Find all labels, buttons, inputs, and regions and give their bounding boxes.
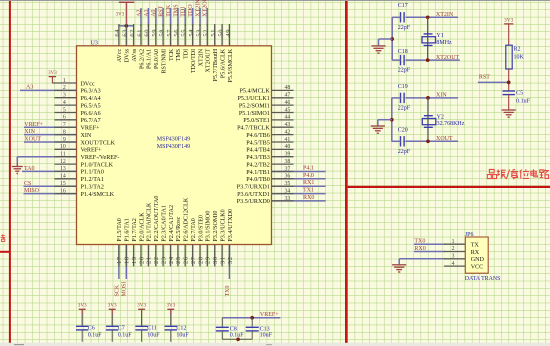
wire net RST (pin 58): [162, 8, 164, 26]
svg-text:A1: A1: [144, 9, 150, 16]
U3 pin 40 P4.4/TB4 stub: [272, 148, 294, 150]
power port 3V3 above C12: [166, 303, 175, 310]
svg-text:P4.0: P4.0: [303, 173, 314, 179]
svg-text:32: 32: [227, 256, 234, 264]
U3 pin 7 VREF+ stub: [55, 126, 77, 128]
svg-text:AVcc: AVcc: [117, 49, 123, 63]
U3 pin 4 P6.5/A5 stub: [55, 104, 77, 106]
svg-text:P6.0/A0: P6.0/A0: [154, 49, 160, 69]
U3 pin 35 P3.7/URXD1 stub: [272, 185, 294, 187]
svg-text:XT2OUT: XT2OUT: [436, 55, 460, 61]
svg-text:22pF: 22pF: [398, 149, 411, 155]
svg-text:P3.4/UTXD0: P3.4/UTXD0: [228, 209, 234, 242]
svg-text:P3.7/URXD1: P3.7/URXD1: [237, 185, 270, 191]
svg-text:P3.3/UCLK0: P3.3/UCLK0: [220, 209, 226, 241]
wire pin11 to ground: [17, 156, 76, 158]
svg-text:XT2IN: XT2IN: [195, 0, 201, 17]
svg-text:XIN: XIN: [436, 92, 447, 98]
wire net A0 (pin 59): [155, 8, 157, 26]
JP6 pin 1 stub: [444, 243, 465, 245]
svg-text:25: 25: [175, 256, 182, 264]
svg-text:TA0: TA0: [24, 166, 35, 172]
svg-text:48: 48: [285, 85, 291, 91]
svg-text:42: 42: [285, 129, 291, 135]
U3 pin 62 AVss stub: [133, 24, 135, 46]
U3 pin 47 P5.3/UCLK1 stub: [272, 97, 294, 99]
svg-text:3V3: 3V3: [116, 12, 125, 17]
svg-text:1: 1: [452, 239, 455, 245]
svg-text:MSP430F149: MSP430F149: [157, 136, 190, 142]
svg-text:P6.2/A2: P6.2/A2: [139, 49, 145, 69]
svg-text:60: 60: [144, 29, 151, 37]
svg-text:Y2: Y2: [437, 115, 444, 121]
U3 pin 13 P1.1/TA0 stub: [55, 170, 77, 172]
U3 pin 60 P6.1/A1 stub: [147, 24, 149, 46]
svg-text:44: 44: [285, 115, 291, 121]
svg-text:P6.7/A7: P6.7/A7: [81, 118, 101, 124]
svg-text:P4.0/TB0: P4.0/TB0: [246, 177, 270, 183]
svg-text:4: 4: [63, 100, 66, 106]
svg-text:30: 30: [212, 256, 219, 264]
svg-text:DVcc: DVcc: [81, 81, 96, 87]
svg-text:P5.1/SIMO1: P5.1/SIMO1: [239, 111, 270, 117]
svg-text:P5.0/STE1: P5.0/STE1: [243, 118, 270, 124]
U3 pin 49 P5.5/SMCLK stub: [228, 24, 230, 46]
svg-text:P2.2/CAOUT/TA0: P2.2/CAOUT/TA0: [154, 196, 160, 242]
svg-text:2: 2: [63, 85, 66, 91]
svg-text:DATA TRANS: DATA TRANS: [465, 276, 501, 282]
svg-text:C11: C11: [147, 325, 157, 331]
power port 3V3 above R2: [504, 17, 514, 24]
junction left rail XIN group: [390, 118, 394, 122]
capacitor C8: [216, 318, 245, 340]
svg-text:61: 61: [136, 29, 143, 37]
svg-text:A0: A0: [151, 9, 157, 16]
svg-text:P1.2/TA1: P1.2/TA1: [81, 177, 104, 183]
svg-text:16: 16: [60, 188, 66, 194]
U3 pin 58 RST/NMI stub: [162, 24, 164, 46]
svg-text:12: 12: [60, 159, 66, 165]
svg-text:P4.1: P4.1: [303, 166, 314, 172]
U3 pin 12 P1.0/TACLK stub: [55, 163, 77, 165]
svg-text:P2.1/TAINCLK: P2.1/TAINCLK: [147, 202, 153, 242]
wire C11 lower lead: [141, 330, 143, 342]
U3 pin 22 P2.2/CAOUT/TA0 stub: [155, 245, 157, 267]
svg-text:AVss: AVss: [132, 48, 138, 61]
wire net A1 (pin 60): [147, 8, 149, 26]
svg-text:P5.2/SOMI1: P5.2/SOMI1: [239, 103, 270, 109]
JP6 pin 4 stub: [444, 265, 465, 267]
U3 pin 50 P5.6/ACLK stub: [221, 24, 223, 46]
svg-text:51: 51: [210, 29, 217, 37]
svg-text:9: 9: [63, 137, 66, 143]
svg-text:64: 64: [114, 29, 121, 37]
wire XOUT right: [406, 140, 459, 142]
svg-text:TCK: TCK: [169, 48, 175, 61]
svg-text:3: 3: [63, 93, 66, 99]
svg-text:10uF: 10uF: [147, 333, 160, 339]
U3 pin 23 P2.3/CA0/TA1 stub: [162, 245, 164, 267]
svg-text:22: 22: [153, 256, 160, 264]
junction XT2IN: [426, 15, 430, 19]
svg-text:4: 4: [452, 261, 455, 267]
U3 pin 28 P3.0/STE0 stub: [199, 245, 201, 267]
U3 pin 33 P3.5/URXD0 stub: [272, 200, 294, 202]
U3 pin 37 P4.1/TB1 stub: [272, 171, 294, 173]
svg-text:5: 5: [63, 107, 66, 113]
U3 pin 46 P5.2/SOMI1 stub: [272, 104, 294, 106]
svg-text:P3.6/UTXD1: P3.6/UTXD1: [237, 192, 270, 198]
U3 pin 19 P1.7/TA2 stub: [133, 245, 135, 267]
svg-text:P3.5/URXD0: P3.5/URXD0: [237, 199, 270, 205]
U3 pin 8 XIN stub: [55, 134, 77, 136]
svg-text:C19: C19: [398, 84, 408, 90]
wire 3V3 to C12: [170, 309, 172, 314]
U3 pin 34 P3.6/UTXD1 stub: [272, 193, 294, 195]
U3 pin 5 P6.6/A6 stub: [55, 112, 77, 114]
wire net TDI (pin 55): [184, 8, 186, 26]
svg-text:RST: RST: [159, 5, 165, 16]
svg-text:P6.5/A5: P6.5/A5: [81, 103, 101, 109]
svg-text:52: 52: [203, 29, 210, 37]
svg-text:3: 3: [452, 254, 455, 260]
svg-text:A3: A3: [26, 85, 33, 91]
capacitor C17: [398, 3, 411, 31]
svg-text:3V3: 3V3: [137, 303, 146, 309]
junction bottom rail: [236, 337, 240, 341]
wire 3V3 rail to pins 64,63,62: [119, 25, 134, 27]
wire net XIN (pin8): [24, 134, 77, 136]
svg-text:8MHz: 8MHz: [436, 40, 452, 46]
U3 pin 6 P6.7/A7 stub: [55, 119, 77, 121]
svg-text:XOUT/TCLK: XOUT/TCLK: [81, 140, 116, 146]
U3 pin 11 VREF-/VeREF- stub: [55, 156, 77, 158]
capacitor C19: [398, 84, 411, 111]
svg-text:10K: 10K: [514, 55, 525, 61]
svg-text:R2: R2: [514, 47, 521, 53]
power port 3V3 feeding pins 64-62: [116, 2, 135, 26]
svg-text:3V3: 3V3: [78, 303, 87, 309]
svg-text:35: 35: [285, 181, 291, 187]
wire JP6 pin3 to ground: [398, 259, 400, 265]
svg-text:38: 38: [285, 159, 291, 165]
U3 pin 29 P3.1/SIMO0 stub: [206, 245, 208, 267]
wire to ground XIN group: [378, 119, 392, 121]
svg-text:VREF+: VREF+: [81, 126, 101, 132]
svg-text:34: 34: [285, 188, 291, 194]
U3 pin 55 TDI stub: [184, 24, 186, 46]
U3 pin 15 P1.3/TA2 stub: [55, 185, 77, 187]
svg-text:39: 39: [285, 152, 291, 158]
U3 pin 25 P2.5/Rosc stub: [177, 245, 179, 267]
wire XT2IN left: [392, 16, 400, 18]
U3 pin 31 P3.3/UCLK0 stub: [221, 245, 223, 267]
svg-text:GND: GND: [471, 257, 485, 263]
ground symbol at pin11: [12, 167, 23, 174]
capacitor C12: [165, 325, 190, 338]
svg-text:P4.7/TBCLK: P4.7/TBCLK: [237, 126, 270, 132]
wire net XT2IN (pin 53): [199, 8, 201, 26]
svg-text:P5.4/MCLK: P5.4/MCLK: [239, 89, 270, 95]
svg-text:U3: U3: [91, 41, 98, 47]
svg-text:0.1uF: 0.1uF: [230, 332, 245, 338]
wire left rail XIN group: [391, 98, 393, 141]
wire net MISO (pin16): [24, 193, 77, 195]
svg-text:46: 46: [285, 100, 291, 106]
U3 pin 10 VeREF+ stub: [55, 148, 77, 150]
U3 pin 24 P2.4/CA1/TA2 stub: [170, 245, 172, 267]
JP6 pin 2 stub: [444, 251, 465, 253]
U3 pin 20 P2.0/ACLK stub: [140, 245, 142, 267]
svg-text:P1.5/TA0: P1.5/TA0: [117, 218, 123, 241]
svg-text:63: 63: [122, 29, 129, 37]
svg-text:P5.5/SMCLK: P5.5/SMCLK: [228, 48, 234, 82]
wire net P4.0 (pin 36): [272, 178, 326, 180]
U3 pin 64 AVcc stub: [118, 24, 120, 46]
wire net CS (pin15): [24, 185, 77, 187]
svg-text:RX0: RX0: [414, 246, 425, 252]
U3 pin 53 XT2IN stub: [199, 24, 201, 46]
power port 3V3 above C6: [78, 303, 87, 310]
junction VREF+ rail: [250, 316, 254, 320]
svg-text:13: 13: [60, 166, 66, 172]
svg-text:P4.2/TB2: P4.2/TB2: [246, 162, 270, 168]
svg-text:P4.3/TB3: P4.3/TB3: [246, 155, 270, 161]
svg-text:15: 15: [60, 181, 66, 187]
U3 pin 54 TDO/TDI stub: [192, 24, 194, 46]
svg-text:P2.6/ADC12CLK: P2.6/ADC12CLK: [184, 197, 190, 241]
svg-text:54: 54: [188, 29, 195, 37]
wire 3V3 to C11: [141, 309, 143, 314]
svg-text:43: 43: [285, 122, 291, 128]
U3 pin 61 P6.2/A2 stub: [140, 24, 142, 46]
wire net TMS (pin 56): [177, 8, 179, 26]
wire net RX1 (pin 35): [272, 185, 326, 187]
svg-text:P1.7/TA2: P1.7/TA2: [132, 218, 138, 241]
wire net XOUT (pin9): [24, 141, 77, 143]
svg-text:3V3: 3V3: [48, 71, 57, 76]
ground symbol C5: [502, 110, 516, 117]
U3 pin 59 P6.0/A0 stub: [155, 24, 157, 46]
svg-text:56: 56: [173, 29, 180, 37]
svg-text:8: 8: [63, 129, 66, 135]
svg-text:XT2IN: XT2IN: [436, 12, 454, 18]
svg-text:0.1uF: 0.1uF: [118, 333, 133, 339]
svg-text:MISO: MISO: [24, 188, 40, 194]
junction 3V3 rail: [124, 24, 128, 28]
wire C12 lower lead: [170, 330, 172, 342]
U3 pin 42 P4.6/TB6 stub: [272, 134, 294, 136]
svg-text:3V3: 3V3: [166, 303, 175, 309]
svg-text:C20: C20: [398, 128, 408, 134]
svg-text:P1.0/TACLK: P1.0/TACLK: [81, 162, 114, 168]
junction left rail XT2: [390, 37, 394, 41]
wire 3V3 to R2: [508, 24, 510, 45]
U3 pin 38 P4.2/TB2 stub: [272, 163, 294, 165]
wire net RST: [478, 81, 509, 83]
svg-text:27: 27: [190, 256, 197, 264]
sheet divider: left margin red line: [9, 1, 11, 343]
svg-text:10uF: 10uF: [260, 332, 273, 338]
svg-text:Y1: Y1: [436, 33, 443, 39]
svg-text:1: 1: [63, 78, 66, 84]
svg-text:18: 18: [124, 256, 131, 264]
svg-text:TDI: TDI: [181, 7, 187, 17]
svg-text:40: 40: [285, 144, 291, 150]
section label crystal/reset (CJK): [487, 169, 549, 179]
svg-text:22pF: 22pF: [398, 68, 411, 74]
svg-text:XOUT: XOUT: [24, 137, 41, 143]
svg-text:SCK: SCK: [114, 284, 120, 296]
wire C5 to ground: [508, 95, 510, 110]
ground symbol XIN group: [371, 126, 385, 133]
svg-text:21: 21: [146, 256, 153, 264]
svg-text:VREF-/VeREF-: VREF-/VeREF-: [81, 155, 120, 161]
svg-text:57: 57: [166, 29, 173, 37]
U3 pin 16 P1.4/SMCLK stub: [55, 193, 77, 195]
U3 pin 39 P4.3/TB3 stub: [272, 156, 294, 158]
svg-text:55: 55: [181, 29, 188, 37]
wire to ground XT2: [379, 38, 393, 40]
wire left rail XT2: [391, 17, 393, 60]
svg-text:23: 23: [160, 256, 167, 264]
ground symbol JP6: [392, 265, 406, 272]
sheet divider: horizontal red line y=187: [348, 186, 550, 188]
JP6 pin 1 net wire: [414, 243, 445, 245]
wire net SCK (pin 17): [118, 245, 120, 280]
svg-text:P4.4/TB4: P4.4/TB4: [246, 148, 270, 154]
svg-text:14: 14: [60, 174, 66, 180]
svg-text:P2.4/CA1/TA2: P2.4/CA1/TA2: [169, 205, 175, 242]
svg-text:RST: RST: [479, 75, 490, 81]
svg-text:P6.3/A3: P6.3/A3: [81, 89, 101, 95]
wire net XT2OUT (pin 52): [206, 8, 208, 26]
svg-text:P5.7/TBoutH: P5.7/TBoutH: [213, 48, 219, 81]
svg-text:P4.1/TB1: P4.1/TB1: [246, 170, 270, 176]
svg-text:P2.5/Rosc: P2.5/Rosc: [176, 216, 182, 241]
wire C8-C13 bottom rail: [222, 338, 252, 340]
sheet divider: left margin tick: [0, 251, 10, 253]
ground symbol XT2: [371, 46, 385, 53]
svg-text:62: 62: [129, 29, 136, 37]
svg-text:C5: C5: [516, 90, 523, 96]
svg-text:P2.3/CA0/TA1: P2.3/CA0/TA1: [161, 205, 167, 242]
svg-text:C12: C12: [176, 325, 186, 331]
wire XOUT left: [392, 140, 401, 142]
svg-text:XT2OUT: XT2OUT: [206, 49, 212, 73]
svg-text:TDO/TDI: TDO/TDI: [191, 49, 197, 73]
svg-text:P4.6/TB6: P4.6/TB6: [246, 133, 270, 139]
capacitor C20: [398, 128, 411, 155]
svg-text:TX0: TX0: [225, 286, 231, 297]
wire net VREF+ (pin7): [24, 126, 77, 128]
wire net RX0 (pin 33): [272, 200, 326, 202]
svg-text:20: 20: [138, 256, 145, 264]
wire net A2 (pin 61): [140, 8, 142, 26]
svg-text:P1.6/TA1: P1.6/TA1: [125, 218, 131, 241]
svg-text:C7: C7: [118, 325, 125, 331]
junction RST: [507, 81, 511, 85]
svg-text:26: 26: [183, 256, 190, 264]
bottom status strip: [0, 343, 550, 346]
U3 pin 41 P4.5/TB5 stub: [272, 141, 294, 143]
U3 pin 17 P1.5/TA0 stub: [118, 245, 120, 267]
svg-text:7: 7: [63, 122, 66, 128]
svg-text:P5.6/ACLK: P5.6/ACLK: [220, 48, 226, 78]
svg-text:P3.2/SOMI0: P3.2/SOMI0: [213, 211, 219, 242]
svg-text:19: 19: [131, 256, 138, 264]
U3 pin 21 P2.1/TAINCLK stub: [147, 245, 149, 267]
svg-text:22pF: 22pF: [398, 25, 411, 31]
svg-text:45: 45: [285, 107, 291, 113]
power port 3V3 above C7: [108, 303, 117, 310]
capacitor C6: [76, 325, 102, 338]
wire C6 lower lead: [81, 330, 83, 342]
svg-text:TX0: TX0: [414, 239, 425, 245]
U3 pin 43 P4.7/TBCLK stub: [272, 126, 294, 128]
svg-text:C17: C17: [398, 3, 408, 9]
sheet divider: vertical red line x=345: [345, 1, 348, 343]
capacitor C11: [135, 325, 160, 338]
wire R2 to RST node: [508, 69, 510, 91]
svg-text:XT2OUT: XT2OUT: [203, 0, 209, 17]
junction XT2OUT: [426, 58, 430, 62]
wire VREF+ rail: [222, 317, 280, 319]
U3 pin 52 XT2OUT stub: [206, 24, 208, 46]
wire C7 lower lead: [111, 330, 113, 342]
U3 pin 1 DVcc stub: [52, 82, 76, 84]
svg-text:11: 11: [60, 152, 66, 158]
JP6 pin 2 net wire: [414, 251, 445, 253]
svg-text:37: 37: [285, 166, 291, 172]
crystal Y1: [422, 17, 452, 60]
svg-text:XOUT: XOUT: [436, 136, 453, 142]
svg-text:CS: CS: [24, 181, 31, 187]
svg-text:P2.7/TA0: P2.7/TA0: [191, 218, 197, 241]
power port 3V3 at U3 pin1: [48, 71, 57, 77]
svg-text:TDI: TDI: [184, 49, 190, 59]
capacitor C5: [503, 90, 531, 104]
U3 pin 3 P6.4/A4 stub: [55, 97, 77, 99]
margin zone character: [1, 234, 5, 241]
svg-text:JP6: JP6: [465, 232, 474, 238]
svg-text:33: 33: [285, 196, 291, 202]
svg-text:29: 29: [205, 256, 212, 264]
wire net P4.1 (pin 37): [272, 171, 326, 173]
svg-text:DVss: DVss: [125, 48, 131, 62]
svg-text:P6.6/A6: P6.6/A6: [81, 111, 101, 117]
wire net TDO (pin 54): [192, 8, 194, 26]
svg-text:3V3: 3V3: [108, 303, 117, 309]
U3 pin 63 DVss stub: [125, 24, 127, 46]
svg-text:P2.0/ACLK: P2.0/ACLK: [139, 212, 145, 242]
svg-text:59: 59: [151, 29, 158, 37]
svg-text:VREF+: VREF+: [24, 122, 43, 128]
svg-text:TDO: TDO: [188, 4, 194, 17]
svg-text:P5.3/UCLK1: P5.3/UCLK1: [237, 96, 269, 102]
svg-text:36: 36: [285, 174, 291, 180]
svg-text:41: 41: [285, 137, 291, 143]
U3 pin 48 P5.4/MCLK stub: [272, 89, 294, 91]
top border line: [0, 0, 550, 1]
svg-text:TX1: TX1: [303, 188, 314, 194]
svg-text:P6.1/A1: P6.1/A1: [147, 49, 153, 69]
U3 pin 18 P1.6/TA1 stub: [125, 245, 127, 267]
svg-text:31: 31: [219, 256, 226, 264]
U3 pin 2 P6.3/A3 stub: [55, 89, 77, 91]
wire XIN right: [406, 97, 459, 99]
svg-text:P6.4/A4: P6.4/A4: [81, 96, 101, 102]
